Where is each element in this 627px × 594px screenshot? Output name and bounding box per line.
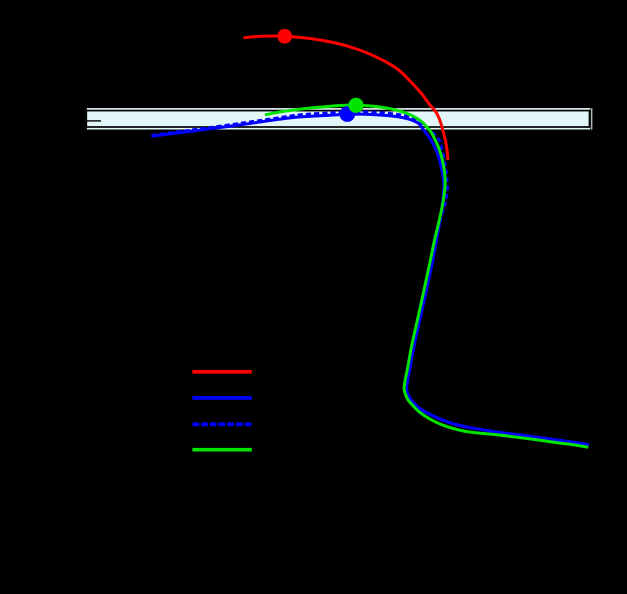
axis tick inside band [85,120,101,122]
green curve [265,105,588,447]
uncertainty band fill [85,108,592,129]
legend red line [192,370,251,374]
green marker [348,98,363,113]
frame left axis segment [85,108,87,130]
blue solid curve [152,114,589,445]
legend green line [192,448,251,452]
uncertainty band border [86,111,589,127]
frame right axis segment [590,108,592,130]
legend blue solid line [192,396,251,400]
legend blue dashed line [192,422,251,426]
blue marker [340,106,356,122]
blue dashed curve [152,112,589,445]
red marker [277,29,292,44]
red curve [244,36,449,160]
